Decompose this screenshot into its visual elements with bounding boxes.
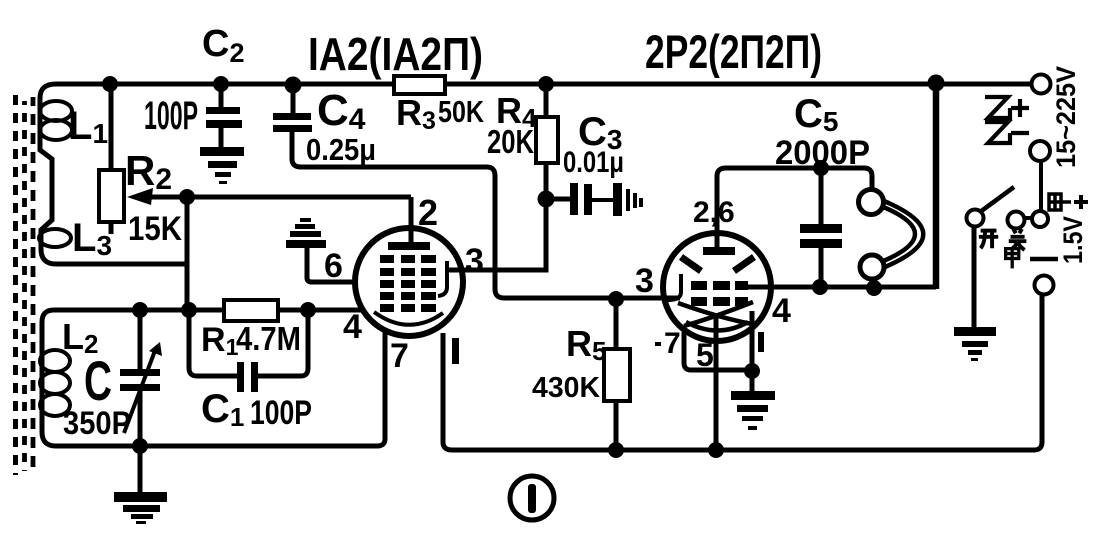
svg-text:2000P: 2000P bbox=[775, 134, 870, 172]
resistor R1 bbox=[224, 300, 278, 321]
node tank-R1 right bbox=[300, 302, 316, 318]
resistor R2 bbox=[99, 170, 124, 222]
wire C4 top lead bbox=[291, 86, 296, 113]
node rail-R2 bbox=[102, 76, 118, 92]
node grid2 junction R5 bbox=[608, 291, 624, 307]
U1 filament arc bbox=[374, 312, 443, 325]
U1 grid rows bbox=[380, 255, 436, 312]
node tank bottom bbox=[132, 438, 148, 454]
capacitor C variable plates bbox=[120, 369, 160, 376]
wire U2 grid3 entry bbox=[663, 296, 680, 301]
ground under tank bbox=[114, 492, 167, 524]
U1 top plate bar bbox=[388, 242, 430, 250]
U2 top plate bar bbox=[703, 247, 735, 255]
wire R2 bottom lead bbox=[109, 222, 114, 234]
node rail-B line bbox=[928, 75, 945, 92]
capacitor C5 bbox=[800, 224, 842, 233]
svg-text:2P2(2П2П): 2P2(2П2П) bbox=[645, 25, 822, 78]
svg-text:4: 4 bbox=[343, 308, 362, 346]
wire U2 pin1 lead bbox=[750, 311, 755, 391]
U1 pin2 riser bbox=[409, 197, 414, 244]
headphone earpiece bottom bbox=[860, 255, 884, 279]
wire wiper junction down to grid rail bbox=[185, 197, 190, 310]
node rail-R4 bbox=[538, 76, 554, 92]
wire U1 pin6 bbox=[307, 248, 356, 282]
svg-text:430K: 430K bbox=[532, 372, 600, 404]
wire R5 top lead bbox=[614, 298, 619, 349]
svg-text:15K: 15K bbox=[128, 210, 182, 248]
svg-text:C: C bbox=[84, 349, 112, 412]
C variable arrow bbox=[124, 348, 156, 433]
wire R4 bottom to plate of U1 bbox=[446, 163, 546, 270]
inductor L3 bbox=[39, 229, 71, 247]
svg-text:50K: 50K bbox=[438, 94, 484, 129]
chassis ground at C3 bbox=[613, 183, 643, 216]
label A- (jia-) bbox=[1006, 249, 1019, 269]
svg-text:3: 3 bbox=[635, 262, 654, 300]
wire U1 plate rail (rail2) bbox=[443, 295, 1042, 450]
svg-text:2,6: 2,6 bbox=[693, 196, 735, 229]
wire C bottom lead bbox=[138, 391, 143, 446]
inductor L1 bbox=[40, 101, 72, 121]
U1 internal pin3 link bbox=[438, 261, 447, 296]
wire top rail right bbox=[445, 82, 1032, 87]
tube U1 envelope bbox=[355, 228, 463, 336]
wire C4 to grid of U2 bbox=[292, 132, 663, 298]
inductor L2 bbox=[40, 350, 70, 372]
svg-text:100P: 100P bbox=[144, 94, 198, 138]
U2 plate riser and phones wire bbox=[717, 168, 872, 252]
svg-text:IA2(IA2П): IA2(IA2П) bbox=[308, 28, 483, 80]
U2 grid rows bbox=[691, 281, 748, 306]
node rail2-pin5 bbox=[708, 442, 724, 458]
resistor R3 bbox=[394, 76, 445, 94]
core dashed line 1 bbox=[13, 95, 18, 475]
wire C3 to chassis bbox=[592, 198, 613, 202]
terminal B+ bbox=[1032, 75, 1051, 94]
label B- (yi-) bbox=[985, 122, 1010, 143]
wire C5 bottom lead bbox=[819, 248, 824, 287]
wire R4 top lead bbox=[544, 84, 549, 117]
wire C top lead bbox=[138, 310, 143, 369]
wire C1 loop bbox=[189, 310, 308, 376]
symbol figure 1 circle bbox=[510, 476, 554, 520]
node R4-C3 bbox=[538, 191, 555, 208]
tank top rail / outline with L2 bbox=[42, 310, 385, 446]
headphone band bbox=[881, 201, 923, 267]
wire B- to switch contact bbox=[1039, 161, 1043, 212]
core dashed line 3 bbox=[31, 97, 36, 473]
capacitor C4 bbox=[273, 113, 311, 120]
U2 beam plates bbox=[681, 257, 754, 271]
node wiper junction bbox=[179, 189, 195, 205]
wire C2 ground lead bbox=[219, 128, 224, 147]
svg-text:7: 7 bbox=[664, 327, 681, 360]
svg-text:20K: 20K bbox=[487, 123, 534, 160]
node screen-C5 bbox=[812, 279, 828, 295]
svg-text:4.7M: 4.7M bbox=[236, 320, 301, 357]
resistor R4 bbox=[536, 117, 558, 163]
wire tank ground lead bbox=[138, 446, 143, 492]
ground under C2 bbox=[200, 147, 244, 184]
wire B- vertical bbox=[933, 84, 940, 289]
headphone earpiece top bbox=[859, 190, 884, 215]
capacitor C1 bbox=[237, 362, 244, 392]
tube U2 envelope bbox=[663, 233, 771, 341]
wire phones bottom stub bbox=[870, 277, 875, 289]
label kaiguan (switch) bbox=[979, 231, 998, 249]
wire U2 screen to B+ line bbox=[738, 285, 936, 290]
terminal B- bbox=[1030, 141, 1050, 161]
node screen-phones bbox=[866, 280, 882, 296]
node rail-C4 bbox=[285, 77, 302, 94]
svg-text:1.5V: 1.5V bbox=[1058, 216, 1088, 264]
resistor R5 bbox=[604, 349, 630, 401]
node rail2-R5 bbox=[608, 442, 624, 458]
node tank-R1 left bbox=[181, 302, 197, 318]
svg-text:350P: 350P bbox=[63, 405, 131, 441]
switch middle contact bbox=[1008, 212, 1025, 229]
capacitor C2 bbox=[206, 107, 240, 114]
svg-text:3: 3 bbox=[465, 242, 484, 280]
wire C3 stub bbox=[552, 197, 570, 202]
node rail-C2 bbox=[213, 76, 229, 92]
svg-text:15~225V: 15~225V bbox=[1051, 66, 1081, 168]
wire pivot to ground bbox=[972, 226, 977, 328]
wire R2 wiper to grid2 bbox=[150, 195, 411, 200]
capacitor C3 bbox=[570, 183, 578, 215]
svg-text:6: 6 bbox=[324, 247, 343, 285]
switch arm bbox=[980, 187, 1014, 212]
R2 wiper arrowhead bbox=[127, 188, 153, 205]
ground at switch bbox=[954, 327, 996, 361]
label A+ (jia+) rotated bbox=[1049, 194, 1071, 210]
svg-text:0.25μ: 0.25μ bbox=[306, 132, 376, 167]
switch contact A+ bbox=[1032, 211, 1048, 227]
U2 filament arcs bbox=[678, 302, 753, 331]
wire C2 top lead bbox=[219, 84, 224, 107]
switch pivot bbox=[967, 210, 984, 227]
wire U2 pin7 bracket bbox=[684, 332, 752, 370]
terminal A- bbox=[1035, 276, 1054, 295]
wire R2 top lead bbox=[109, 84, 114, 170]
svg-text:2: 2 bbox=[418, 192, 438, 233]
U2 internal grid link bbox=[668, 274, 681, 300]
wire contact link bbox=[1024, 216, 1032, 220]
svg-text:0.01μ: 0.01μ bbox=[563, 146, 624, 179]
core dashed line 2 bbox=[22, 101, 27, 471]
node plate wire C5 bbox=[813, 160, 829, 176]
wire C5 top lead bbox=[819, 168, 824, 224]
U1 pin6 bypass pad bbox=[286, 218, 326, 248]
wire top rail left + antenna coil outline bbox=[40, 84, 394, 264]
svg-text:4: 4 bbox=[772, 292, 791, 330]
svg-text:100P: 100P bbox=[250, 394, 312, 432]
node pin1-ground bbox=[744, 363, 760, 379]
ground under U2 bbox=[731, 391, 775, 430]
wire R5 bottom lead bbox=[614, 401, 619, 450]
wire U2 pin5 to rail2 bbox=[714, 314, 719, 450]
label B+ (yi+) bbox=[985, 97, 1010, 118]
node tank-C top bbox=[132, 302, 148, 318]
svg-text:7: 7 bbox=[390, 337, 409, 375]
